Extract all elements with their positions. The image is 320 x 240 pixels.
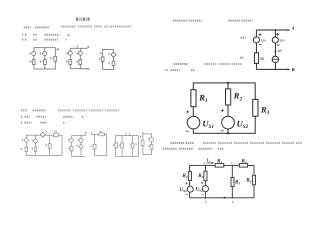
source U2 circuit1 [43,52,47,56]
arrow to node B [288,68,291,70]
wire bottom rowB [71,155,85,157]
svg-text:US1: US1 [202,118,214,130]
label b2 source rowB [77,139,79,141]
wire branch2 rowA [35,135,37,155]
voltage source 10V right [272,37,278,43]
wire outer loop rowD [115,136,138,157]
wire outer loop circuit1 [34,48,55,69]
resistor R1 bottom [188,172,191,181]
resistor b3 rowA [48,144,51,149]
wire branch2 rowD [121,136,123,157]
svg-text:B: B [291,67,295,72]
wire second branch circuit2 [79,48,81,68]
wire outer loop circuit3 [103,50,114,70]
resistor R5 bottom [231,177,234,186]
junction dot bottom [275,69,277,71]
resistor R4 bottom (horizontal) [239,164,247,168]
resistor left rowE [141,140,144,145]
text line (1) [22,34,23,36]
terminal a circuit2 [86,48,87,49]
source circle b1 rowA [25,139,29,143]
plus US1 bottom [185,182,187,184]
current arrow I circuit1 [56,48,58,51]
label b1 source rowA [22,139,24,141]
svg-text:d: d [232,199,234,203]
resistor R3 [253,99,258,116]
resistor R3 bottom [204,171,207,181]
label b1 resistor rowA [21,148,23,150]
resistor top rowC [99,133,105,136]
source U1 circuit2 [68,51,72,55]
label U1 circuit1 [29,53,32,55]
resistor R1 circuit2 [69,60,72,65]
wire left branch circuit2 [69,48,71,68]
junction dot top big circuit [227,82,229,84]
label R3 circuit1 [50,57,52,59]
junction dot b [205,197,207,199]
label R2 circuit1 [40,61,43,63]
text line 1-1 [24,26,31,28]
label b1 resistor rowB [68,148,70,150]
source U2 circuit2 [78,51,82,55]
resistor b1 rowB [70,146,73,151]
svg-text:R2: R2 [217,159,222,165]
terminal stub rowC [91,133,94,135]
svg-text:R3: R3 [198,173,203,179]
tiny marks left of top-right circuit [241,37,246,39]
source US1 [187,116,200,129]
svg-text:US1: US1 [180,187,188,193]
label top resistor rowA [54,131,57,133]
source US2 [222,116,235,129]
terminal tick a rowD [125,133,127,136]
label b1 source rowB [68,139,70,141]
source US2 bottom [202,186,208,192]
wire left branch [255,30,257,37]
wire branch c-d [231,165,233,197]
minus sign right source [277,44,280,46]
current source bar inside [273,58,279,60]
junction dot top [275,29,277,31]
svg-text:6A: 6A [278,49,283,53]
source circle b2 rowB [79,138,83,142]
source US1 bottom [187,186,193,192]
minus sign left source [259,44,261,46]
svg-text:R1: R1 [183,173,188,179]
resistor R1 circuit1 [32,60,35,65]
resistor R6 bottom [253,175,256,185]
svg-text:b: b [205,199,207,203]
label b3 resistor rowA [46,144,48,146]
junction dot a [205,165,207,167]
label terminal a rowB [86,131,87,133]
resistor left rowC [93,144,96,149]
wire outer loop rowE [143,134,152,155]
wire top circuit2 [70,47,86,49]
svg-text:A: A [291,26,295,31]
resistor right rowE [150,145,153,150]
source U1 circuit1 [32,52,36,56]
label b1 rowD [113,144,115,146]
label U dependent circuit3 [108,53,110,55]
svg-text:c: c [231,160,233,164]
resistor b1 rowA [25,147,28,151]
terminal b circuit2 [86,68,87,69]
wire bottom AB circuit [256,68,288,70]
wire top rowB [71,135,85,137]
resistor R2 circuit3 [112,61,115,65]
text line bottom 2 [163,148,177,150]
source circle right rowE [149,137,153,141]
terminal tick b rowD [128,133,130,136]
current source 6A [272,56,278,62]
plus sign right source [276,33,279,36]
plus US2 [221,109,224,112]
label R2 circuit3 [108,62,110,64]
dependent source diamond circuit3 [111,52,116,57]
svg-text:R3: R3 [260,104,270,116]
wire outer loop rowA [26,135,62,155]
label right of b3 rowD [135,143,137,145]
resistor top horizontal rowA [54,134,59,137]
svg-text:US2: US2 [237,118,249,130]
source circle b2 rowA [34,139,38,143]
label b2 diamond rowB [76,145,78,147]
text line top right [173,20,187,22]
current arrow I1 above wire [206,162,213,164]
label U2 circuit2 [76,53,78,55]
arrow to node A [288,29,291,31]
resistor R3 circuit1 [54,56,57,61]
wire right branch [274,30,276,37]
minus US1 [186,130,189,132]
arrow under diamond rowA [41,136,44,138]
resistor R1 [191,90,196,107]
label b2 source rowA [32,140,34,142]
minus US2 bottom [202,194,204,196]
terminal tick top rowB [84,133,86,136]
label R2 circuit2 [76,61,78,63]
label diamond rowA [46,131,48,133]
wire middle branch [44,48,46,69]
label b3 rowD [130,144,131,146]
dependent diamond b2 rowB [79,144,83,149]
voltage source 10V left [253,37,259,43]
label I rowE [140,136,141,138]
wire [274,63,276,70]
bottom wire arrow [222,197,225,199]
resistor R2 circuit2 [79,60,82,65]
resistor b2 rowA [34,147,37,151]
wire branch2 rowB [80,136,82,157]
label b2 resistor rowA [32,148,34,150]
label right resistor rowE [148,145,150,147]
plus US2 bottom [201,182,203,184]
svg-text:R2: R2 [233,91,243,103]
wire [255,43,257,53]
resistor b3 rowD [131,143,134,148]
resistor 5ohm [254,53,258,64]
text line (2) [22,39,24,41]
wire outer loop rowC [95,134,107,155]
6A arrow up [274,50,276,52]
text line mid right 2 [165,69,168,71]
svg-text:R4: R4 [241,159,246,165]
wire [255,63,257,69]
resistor R circuit3 [101,57,104,61]
svg-text:I1: I1 [206,158,211,164]
svg-text:10V: 10V [279,38,285,42]
svg-text:US2: US2 [195,187,203,193]
text line bottom 1 [171,142,185,144]
svg-text:5Ω: 5Ω [260,57,265,61]
label R1 circuit1 [29,61,32,63]
resistor b1 rowD [115,143,118,148]
title text [76,18,90,21]
wire branch3 rowD [132,136,134,157]
wire outer loop bottom circuit [190,165,254,197]
svg-text:a: a [203,161,205,165]
label U2 circuit1 [40,53,43,55]
junction dot d [232,197,234,199]
plus US1 [186,110,189,113]
source circle b1 rowB [70,138,74,142]
resistor b2 rowD [121,143,124,148]
minus US1 bottom [186,194,188,196]
svg-text:R6: R6 [246,177,251,183]
terminal tick rowE [142,132,144,134]
plus sign left source [259,33,262,36]
dependent source diamond top rowA [40,132,45,137]
wire outer loop big circuit [193,83,255,133]
label top resistor rowC [100,130,103,132]
svg-text:10V: 10V [260,38,266,42]
svg-text:R1: R1 [198,92,208,104]
terminal tick rowC [90,132,92,135]
wire top AB circuit [256,29,288,31]
wire branch a-b [204,165,206,197]
wire left branch rowB [70,136,72,157]
label R1 circuit2 [66,61,69,63]
wire with 6A arrow [274,43,276,56]
resistor R2 bottom (horizontal) [215,164,224,168]
text line (1)mid [21,116,22,118]
svg-text:R5: R5 [235,179,240,185]
wire bottom circuit2 [70,68,86,70]
resistor R2 [226,89,231,105]
text line mid right 1 [174,63,189,65]
wire middle branch big circuit [227,83,229,133]
resistor R2 circuit1 [43,60,46,65]
label U1 circuit2 [66,52,69,54]
junction dot c [232,165,234,167]
text line (2)mid [21,122,22,124]
minus US2 [221,130,224,132]
label b2 rowD [119,144,120,146]
wire branch3 rowA [49,135,51,155]
current arrow I circuit3 [100,52,102,55]
label R circuit3 [99,58,101,60]
junction dot bottom big circuit [227,132,229,134]
label right source rowE [148,138,149,140]
text line 2-1 [21,109,27,111]
current arrow I circuit2 [76,45,78,49]
label left resistor rowC [91,145,93,147]
